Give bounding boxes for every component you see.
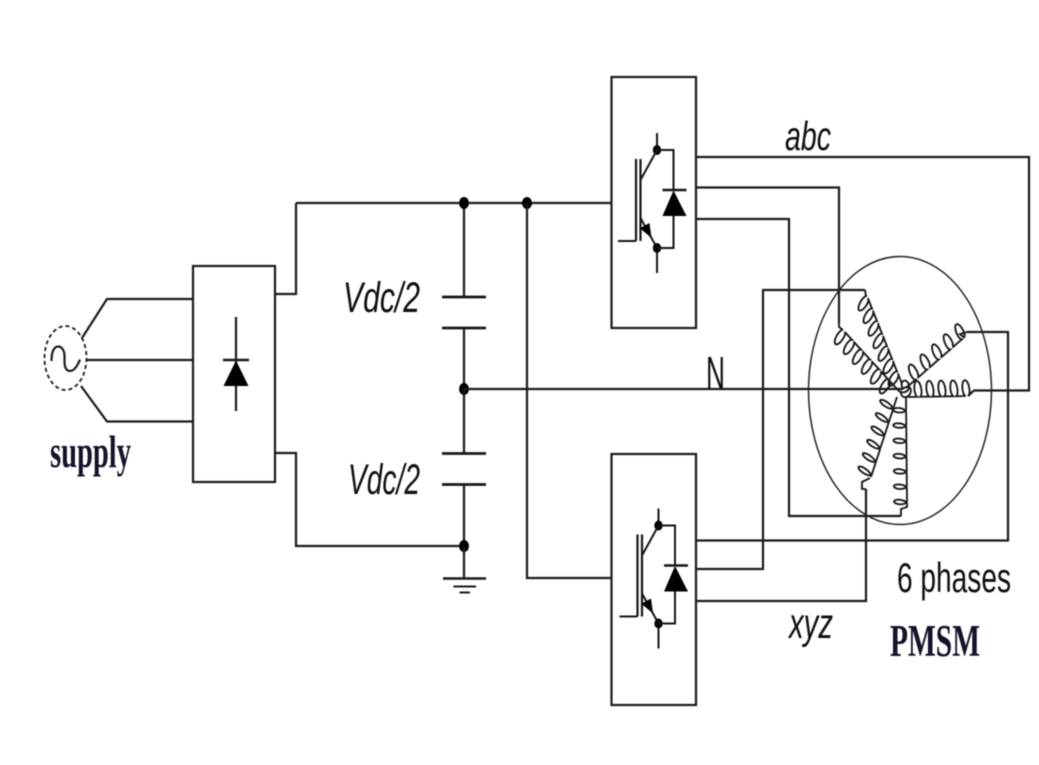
node bottom dot (459, 540, 469, 552)
node midpoint dot (459, 383, 469, 395)
wire bus to capacitor C1 (463, 203, 465, 297)
wire bottom node to ground (463, 546, 465, 579)
wire supply phase mid (87, 359, 194, 361)
ground symbol (443, 579, 486, 593)
winding right coil (908, 380, 970, 397)
wire neutral N line (464, 388, 903, 390)
winding upper-left inner coil (835, 330, 897, 394)
wire phase c: inverter to bottom inner winding (696, 219, 901, 516)
rectifier diode D1 triangle (224, 361, 249, 387)
wire midpoint to capacitor C2 (463, 389, 465, 454)
wire phase x: inverter to top-right winding (696, 332, 1008, 541)
winding bottom outer coil (858, 397, 897, 477)
wire rectifier - output to bottom node (275, 453, 464, 546)
svg-text:PMSM: PMSM (890, 616, 980, 666)
wire bus to lower inverter (527, 203, 612, 578)
wire C1 to midpoint node (463, 328, 465, 389)
rectifier block outline (193, 266, 275, 482)
svg-text:Vdc/2: Vdc/2 (348, 456, 420, 504)
svg-text:Vdc/2: Vdc/2 (343, 274, 420, 322)
lower inverter IGBT cell (620, 509, 689, 649)
node bus dot 2 (522, 197, 532, 209)
winding bottom inner lead-in (901, 504, 907, 516)
capacitor C1 bottom plate (442, 327, 486, 330)
winding bottom outer lead-in (862, 478, 870, 489)
wire phase z: inverter to bottom outer winding (696, 489, 866, 601)
svg-text:supply: supply (50, 426, 131, 477)
node bus dot 1 (459, 197, 469, 209)
motor stator circle (809, 257, 992, 525)
upper inverter block outline (612, 77, 697, 328)
winding top-right lead-in (960, 332, 967, 338)
winding upper-left outer coil (859, 296, 903, 386)
svg-text:N: N (706, 347, 725, 399)
wire dc bus top rail (296, 202, 612, 204)
capacitor C2 top plate (442, 452, 486, 455)
upper inverter IGBT cell (618, 133, 687, 273)
ac sine symbol inside VS1 (52, 347, 81, 372)
svg-text:abc: abc (785, 113, 831, 159)
capacitor C1 top plate (442, 296, 486, 299)
rectifier diode D1 cathode bar (223, 359, 249, 362)
winding upper-left outer lead-in (865, 290, 867, 296)
winding star point tangle (897, 381, 911, 398)
winding top-right coil (906, 324, 965, 388)
lower inverter block outline (612, 454, 697, 705)
wire phase a: inverter to motor right winding (696, 157, 1029, 396)
capacitor C2 bottom plate (442, 483, 486, 486)
wire phase b: inverter to upper-left inner winding (696, 188, 839, 324)
svg-text:xyz: xyz (788, 600, 833, 648)
wire phase y: inverter to upper-left outer winding (696, 290, 865, 569)
rectifier diode D1 lead (235, 317, 237, 411)
svg-text:6 phases: 6 phases (897, 554, 1011, 601)
wire rectifier + output to dc bus (275, 203, 296, 294)
ac source VS1 (single-phase supply) (45, 326, 87, 390)
wire supply phase top (diagonal) (82, 299, 193, 338)
wire C2 to bottom node (463, 485, 465, 547)
winding upper-left inner lead-in (839, 323, 843, 330)
wire supply phase bottom (diagonal) (81, 386, 193, 422)
winding bottom inner coil (893, 397, 907, 504)
